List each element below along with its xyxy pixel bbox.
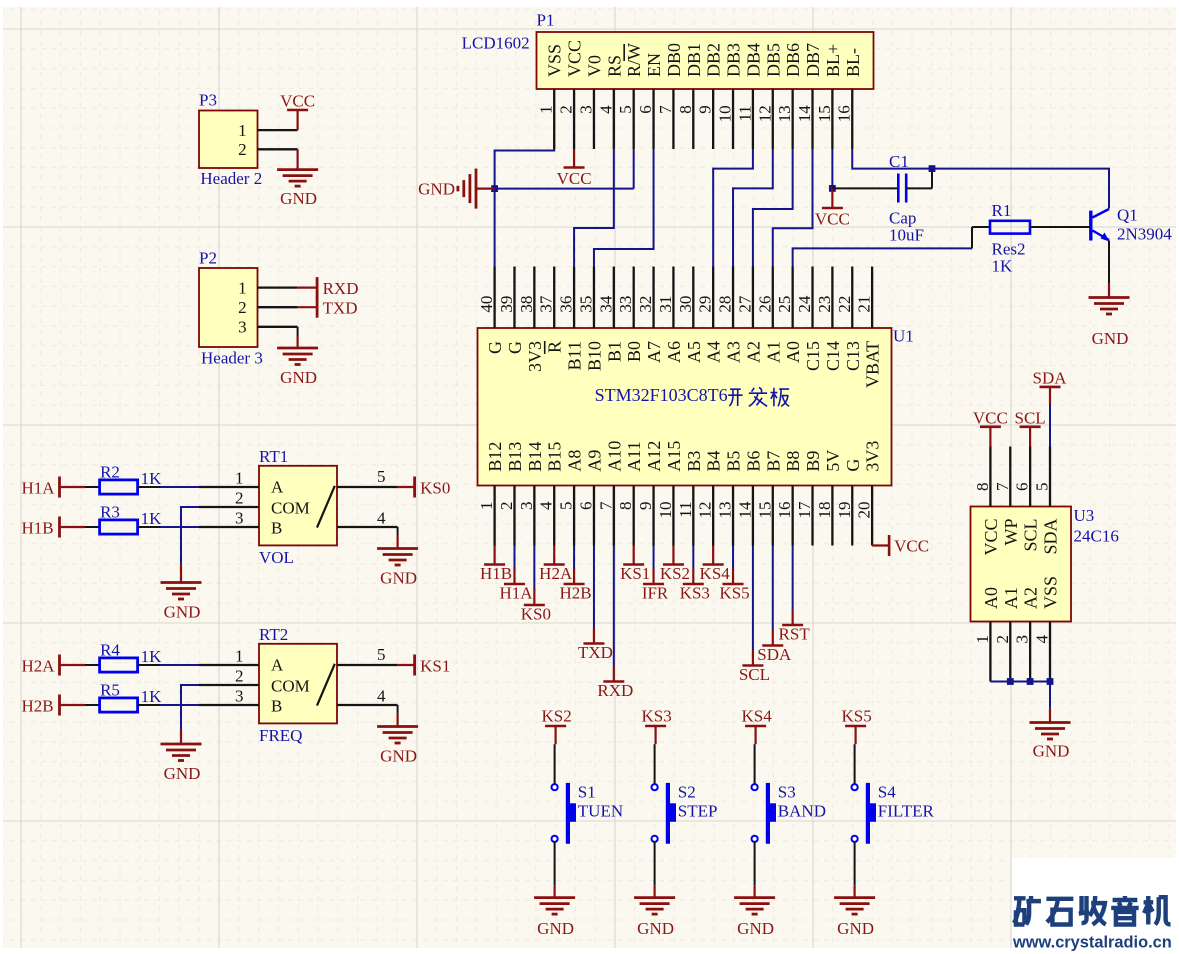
svg-text:31: 31: [656, 296, 675, 313]
svg-text:B: B: [271, 519, 282, 538]
svg-text:S3: S3: [778, 783, 796, 802]
svg-text:A2: A2: [1021, 587, 1041, 609]
svg-text:R4: R4: [100, 641, 120, 660]
svg-text:33: 33: [616, 296, 635, 313]
svg-text:VSS: VSS: [1041, 576, 1061, 609]
svg-text:RT1: RT1: [259, 447, 288, 466]
svg-text:6: 6: [636, 105, 655, 114]
svg-text:A3: A3: [724, 341, 744, 363]
svg-text:GND: GND: [164, 603, 201, 622]
svg-text:KS0: KS0: [521, 605, 551, 624]
svg-text:VBAT: VBAT: [863, 341, 883, 388]
svg-text:G: G: [843, 459, 863, 472]
svg-text:KS4: KS4: [741, 707, 772, 726]
svg-text:A7: A7: [644, 341, 664, 363]
svg-text:TXD: TXD: [323, 299, 358, 318]
svg-text:A2: A2: [743, 341, 763, 363]
svg-text:B14: B14: [525, 442, 545, 472]
svg-text:B: B: [271, 697, 282, 716]
svg-text:SCL: SCL: [1015, 408, 1046, 427]
svg-text:B9: B9: [803, 451, 823, 472]
svg-text:4: 4: [596, 105, 615, 114]
svg-text:7: 7: [596, 501, 615, 510]
svg-text:29: 29: [696, 296, 715, 313]
svg-text:WP: WP: [1001, 519, 1021, 546]
svg-text:SCL: SCL: [1021, 519, 1041, 552]
svg-text:TUEN: TUEN: [578, 802, 623, 821]
svg-text:3: 3: [235, 687, 244, 706]
svg-text:R5: R5: [100, 681, 120, 700]
svg-text:KS1: KS1: [620, 564, 650, 583]
svg-text:C14: C14: [823, 341, 843, 371]
svg-text:VCC: VCC: [557, 169, 592, 188]
svg-text:32: 32: [636, 296, 655, 313]
svg-text:15: 15: [815, 105, 834, 122]
svg-text:35: 35: [576, 296, 595, 313]
svg-text:LCD1602: LCD1602: [462, 34, 530, 53]
svg-text:3V3: 3V3: [863, 441, 883, 472]
svg-text:DB0: DB0: [664, 43, 684, 77]
svg-text:B1: B1: [604, 341, 624, 362]
svg-text:VSS: VSS: [545, 44, 565, 77]
svg-text:H2B: H2B: [22, 697, 54, 716]
svg-text:DB7: DB7: [803, 43, 823, 77]
svg-text:STEP: STEP: [678, 802, 718, 821]
svg-text:GND: GND: [280, 368, 317, 387]
svg-text:24C16: 24C16: [1074, 527, 1119, 546]
svg-text:DB6: DB6: [783, 43, 803, 77]
svg-text:B10: B10: [584, 341, 604, 371]
svg-text:A6: A6: [664, 341, 684, 363]
svg-text:COM: COM: [271, 499, 310, 518]
svg-text:KS5: KS5: [719, 584, 749, 603]
svg-text:22: 22: [835, 296, 854, 313]
svg-text:4: 4: [377, 509, 386, 528]
svg-text:A10: A10: [604, 441, 624, 472]
svg-text:8: 8: [973, 483, 992, 492]
svg-text:A: A: [271, 478, 284, 497]
svg-text:DB5: DB5: [763, 43, 783, 77]
svg-text:GND: GND: [1033, 742, 1070, 761]
svg-text:H2A: H2A: [539, 564, 573, 583]
svg-text:2: 2: [557, 105, 576, 114]
svg-text:GND: GND: [164, 764, 201, 783]
svg-text:27: 27: [735, 295, 754, 313]
svg-text:3: 3: [235, 509, 244, 528]
svg-text:A1: A1: [763, 341, 783, 363]
svg-text:5: 5: [377, 645, 386, 664]
svg-text:6: 6: [576, 502, 595, 511]
svg-text:1K: 1K: [141, 509, 163, 528]
svg-text:H1A: H1A: [22, 479, 56, 498]
svg-text:2: 2: [497, 501, 516, 510]
svg-text:KS3: KS3: [641, 707, 671, 726]
svg-text:7: 7: [656, 105, 675, 114]
svg-text:B12: B12: [485, 442, 505, 472]
svg-text:EN: EN: [644, 53, 664, 77]
svg-text:1: 1: [235, 469, 244, 488]
svg-text:B13: B13: [505, 442, 525, 472]
svg-text:KS5: KS5: [841, 707, 871, 726]
svg-text:DB1: DB1: [684, 43, 704, 77]
svg-text:3V3: 3V3: [525, 341, 545, 372]
svg-text:34: 34: [596, 295, 615, 313]
svg-text:TXD: TXD: [578, 643, 613, 662]
svg-text:RXD: RXD: [323, 279, 359, 298]
svg-text:12: 12: [755, 105, 774, 122]
svg-text:2: 2: [238, 140, 247, 159]
svg-text:C13: C13: [843, 341, 863, 371]
svg-text:S1: S1: [578, 783, 596, 802]
svg-text:A15: A15: [664, 441, 684, 472]
svg-text:IFR: IFR: [642, 584, 669, 603]
svg-text:VCC: VCC: [815, 210, 850, 229]
svg-text:5: 5: [1033, 483, 1052, 492]
svg-text:H1A: H1A: [499, 584, 533, 603]
svg-text:13: 13: [716, 502, 735, 519]
svg-text:18: 18: [815, 502, 834, 519]
svg-text:SCL: SCL: [739, 665, 770, 684]
svg-text:17: 17: [795, 501, 814, 519]
svg-text:H1B: H1B: [480, 564, 512, 583]
svg-text:DB2: DB2: [704, 43, 724, 77]
svg-text:26: 26: [755, 296, 774, 313]
svg-text:39: 39: [497, 296, 516, 313]
svg-text:P2: P2: [199, 249, 217, 268]
svg-text:1: 1: [477, 502, 496, 511]
svg-text:V0: V0: [584, 55, 604, 77]
svg-text:40: 40: [477, 296, 496, 313]
svg-text:R: R: [545, 341, 565, 353]
svg-text:11: 11: [676, 502, 695, 518]
svg-text:1K: 1K: [141, 687, 163, 706]
svg-text:10: 10: [716, 105, 735, 122]
svg-text:www.crystalradio.cn: www.crystalradio.cn: [1012, 934, 1172, 952]
svg-text:GND: GND: [537, 919, 574, 938]
svg-text:A0: A0: [981, 587, 1001, 609]
svg-text:FREQ: FREQ: [259, 726, 302, 745]
svg-text:KS2: KS2: [660, 564, 690, 583]
svg-text:Header 3: Header 3: [201, 349, 263, 368]
svg-text:A0: A0: [783, 341, 803, 363]
svg-text:20: 20: [855, 502, 874, 519]
svg-text:GND: GND: [637, 919, 674, 938]
svg-text:VCC: VCC: [973, 408, 1008, 427]
svg-text:13: 13: [775, 105, 794, 122]
svg-text:GND: GND: [280, 189, 317, 208]
svg-text:A5: A5: [684, 341, 704, 363]
svg-text:9: 9: [636, 502, 655, 511]
svg-text:3: 3: [238, 318, 247, 337]
svg-text:B0: B0: [624, 341, 644, 362]
svg-text:2N3904: 2N3904: [1117, 225, 1172, 244]
svg-text:11: 11: [735, 105, 754, 121]
svg-text:U3: U3: [1074, 506, 1095, 525]
svg-text:DB3: DB3: [724, 43, 744, 77]
svg-text:38: 38: [517, 296, 536, 313]
svg-text:2: 2: [238, 298, 247, 317]
svg-text:5V: 5V: [823, 450, 843, 472]
svg-text:Q1: Q1: [1117, 206, 1138, 225]
svg-text:1: 1: [238, 278, 247, 297]
svg-text:24: 24: [795, 295, 814, 313]
svg-text:1K: 1K: [141, 469, 163, 488]
svg-text:2: 2: [235, 667, 244, 686]
svg-text:A11: A11: [624, 441, 644, 471]
svg-text:1K: 1K: [992, 257, 1014, 276]
svg-text:1K: 1K: [141, 647, 163, 666]
svg-text:4: 4: [377, 687, 386, 706]
svg-text:R2: R2: [100, 463, 120, 482]
svg-text:19: 19: [835, 502, 854, 519]
svg-text:KS2: KS2: [541, 707, 571, 726]
svg-text:12: 12: [696, 502, 715, 519]
svg-text:S2: S2: [678, 783, 696, 802]
svg-text:B7: B7: [763, 451, 783, 472]
svg-text:COM: COM: [271, 677, 310, 696]
svg-text:S4: S4: [878, 783, 896, 802]
svg-text:G: G: [485, 341, 505, 354]
svg-text:GND: GND: [837, 919, 874, 938]
svg-text:7: 7: [993, 482, 1012, 491]
svg-text:GND: GND: [380, 569, 417, 588]
svg-text:SDA: SDA: [757, 645, 792, 664]
svg-text:VCC: VCC: [981, 519, 1001, 556]
svg-text:1: 1: [537, 105, 556, 114]
svg-text:GND: GND: [737, 919, 774, 938]
svg-text:VCC: VCC: [565, 40, 585, 77]
svg-text:36: 36: [557, 296, 576, 313]
svg-text:A9: A9: [584, 450, 604, 472]
svg-text:8: 8: [676, 105, 695, 114]
svg-text:H1B: H1B: [22, 519, 54, 538]
svg-text:GND: GND: [380, 747, 417, 766]
svg-text:H2B: H2B: [560, 584, 592, 603]
svg-text:KS1: KS1: [420, 657, 450, 676]
svg-text:RST: RST: [779, 625, 811, 644]
svg-text:BAND: BAND: [778, 802, 826, 821]
svg-text:A12: A12: [644, 441, 664, 472]
svg-text:VCC: VCC: [280, 92, 315, 111]
svg-text:30: 30: [676, 296, 695, 313]
svg-text:3: 3: [576, 105, 595, 114]
svg-text:3: 3: [517, 502, 536, 511]
svg-text:GND: GND: [1092, 329, 1129, 348]
svg-text:B5: B5: [724, 451, 744, 472]
svg-text:21: 21: [855, 296, 874, 313]
svg-text:15: 15: [755, 502, 774, 519]
svg-text:VOL: VOL: [259, 548, 294, 567]
svg-text:5: 5: [377, 467, 386, 486]
svg-text:RT2: RT2: [259, 625, 288, 644]
svg-text:A: A: [271, 656, 284, 675]
svg-text:B11: B11: [565, 341, 585, 370]
svg-text:16: 16: [835, 105, 854, 122]
svg-text:6: 6: [1013, 483, 1032, 492]
svg-text:G: G: [505, 341, 525, 354]
svg-text:P1: P1: [537, 11, 555, 30]
svg-text:FILTER: FILTER: [878, 802, 935, 821]
svg-text:STM32F103C8T6: STM32F103C8T6: [595, 385, 728, 405]
svg-text:KS0: KS0: [420, 479, 450, 498]
svg-text:C15: C15: [803, 341, 823, 371]
svg-text:25: 25: [775, 296, 794, 313]
svg-text:4: 4: [537, 501, 556, 510]
svg-text:8: 8: [616, 502, 635, 511]
svg-text:1: 1: [973, 635, 992, 644]
svg-text:R1: R1: [992, 201, 1012, 220]
svg-text:A4: A4: [704, 341, 724, 363]
svg-text:R/W: R/W: [624, 43, 644, 77]
svg-text:B4: B4: [704, 451, 724, 472]
svg-text:28: 28: [716, 296, 735, 313]
svg-text:23: 23: [815, 296, 834, 313]
svg-text:SDA: SDA: [1041, 519, 1061, 555]
svg-text:10: 10: [656, 502, 675, 519]
svg-text:BL-: BL-: [843, 48, 863, 77]
svg-text:P3: P3: [199, 90, 217, 109]
svg-text:Header 2: Header 2: [200, 169, 262, 188]
svg-text:GND: GND: [418, 180, 455, 199]
svg-text:14: 14: [795, 105, 814, 123]
svg-text:H2A: H2A: [22, 657, 56, 676]
svg-text:RS: RS: [604, 55, 624, 77]
svg-text:1: 1: [238, 121, 247, 140]
svg-text:KS4: KS4: [700, 564, 731, 583]
svg-text:2: 2: [235, 489, 244, 508]
svg-text:3: 3: [1013, 635, 1032, 644]
svg-text:B3: B3: [684, 451, 704, 472]
svg-text:B8: B8: [783, 451, 803, 472]
svg-text:B15: B15: [545, 442, 565, 472]
svg-text:DB4: DB4: [743, 43, 763, 77]
svg-text:A1: A1: [1001, 587, 1021, 609]
svg-text:37: 37: [537, 295, 556, 313]
svg-text:B6: B6: [743, 451, 763, 472]
svg-text:14: 14: [735, 501, 754, 519]
svg-text:1: 1: [235, 647, 244, 666]
svg-text:5: 5: [557, 502, 576, 511]
svg-text:VCC: VCC: [894, 536, 929, 555]
svg-text:10uF: 10uF: [889, 226, 924, 245]
svg-text:9: 9: [696, 105, 715, 114]
svg-text:2: 2: [993, 635, 1012, 644]
svg-text:R3: R3: [100, 503, 120, 522]
svg-text:RXD: RXD: [597, 681, 633, 700]
svg-text:SDA: SDA: [1032, 368, 1067, 387]
svg-text:KS3: KS3: [680, 584, 710, 603]
svg-text:A8: A8: [565, 450, 585, 472]
svg-text:16: 16: [775, 502, 794, 519]
svg-text:U1: U1: [893, 327, 914, 346]
svg-text:5: 5: [616, 105, 635, 114]
svg-text:4: 4: [1033, 635, 1052, 644]
svg-text:BL+: BL+: [823, 44, 843, 77]
